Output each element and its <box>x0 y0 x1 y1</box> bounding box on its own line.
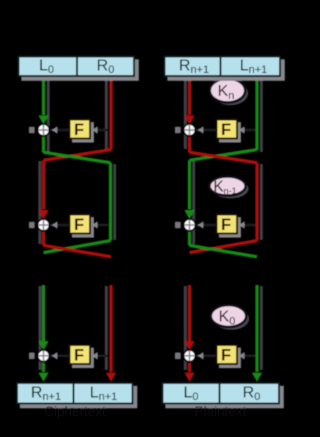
wire F E2 output to XOR E2 <box>50 224 69 227</box>
wire green below XOR3 <box>42 363 45 372</box>
function box F2 <box>72 217 94 238</box>
wire red swap diagonal round1 <box>44 150 112 161</box>
arrowhead red into XOR R3 <box>184 341 194 350</box>
arrowhead into XOR D1 from F D1 <box>198 126 204 134</box>
svg-text:Plaintext: Plaintext <box>195 404 247 419</box>
wire F E1 output to XOR E1 <box>50 129 69 132</box>
xor XOR R1 <box>183 123 197 137</box>
xor XOR R3 <box>183 349 197 363</box>
wire F D3 output to XOR D3 <box>196 354 216 357</box>
wire green L0 down to XOR1 <box>42 77 45 115</box>
xor XOR R2 <box>183 218 197 232</box>
arrowhead green into XOR R2 <box>184 210 194 219</box>
svg-text:F: F <box>74 216 84 234</box>
function box F1 <box>72 122 94 143</box>
key ellipse K0 <box>214 308 250 330</box>
arrowhead into F E1 <box>92 126 98 134</box>
wire red below XOR R3 <box>188 363 191 372</box>
svg-text:Ciphertext: Ciphertext <box>44 404 106 419</box>
shadow blob left of XOR E1 <box>29 127 35 134</box>
wire red left side round n right <box>188 285 191 346</box>
shadow blob left of XOR D1 <box>175 127 181 134</box>
wire red left side round2 <box>42 160 45 209</box>
arrowhead red into output box L0 cell <box>184 373 194 382</box>
arrowhead into F D2 <box>239 221 245 229</box>
ciphertext box Rn+1|Ln+1 (top right) <box>167 59 284 81</box>
wire red right side round2 right <box>255 163 258 241</box>
function box F R3 <box>219 348 241 369</box>
wire green Ln+1 down <box>255 77 258 150</box>
svg-text:F: F <box>221 216 231 234</box>
wire green left side round n <box>42 285 45 346</box>
key ellipse Kn-1 <box>212 179 248 198</box>
wire red swap diagonal round1 right <box>190 152 258 163</box>
arrowhead red into output box L cell <box>106 373 116 382</box>
wire shadow grays right column <box>184 78 187 149</box>
xor XOR2 <box>37 218 51 232</box>
wire shadow grays left column <box>47 78 50 152</box>
arrowhead green into XOR3 <box>38 341 48 350</box>
wire feed into F E1 <box>91 129 108 132</box>
svg-text:F: F <box>221 347 231 365</box>
wire green right side round n right <box>255 285 258 372</box>
wire F D2 output to XOR D2 <box>196 224 216 227</box>
arrowhead into XOR D2 from F D2 <box>198 221 204 229</box>
wire red R0 down <box>109 77 112 150</box>
shadow blob left of XOR D3 <box>175 353 181 360</box>
svg-text:F: F <box>74 347 84 365</box>
svg-text:F: F <box>221 121 231 139</box>
wire red below XOR R1 <box>188 137 191 153</box>
wire F E3 output to XOR E3 <box>50 354 69 357</box>
arrowhead into F D3 <box>239 352 245 360</box>
xor XOR1 <box>37 123 51 137</box>
arrowhead into XOR E1 from F E1 <box>52 126 58 134</box>
arrowhead into F E3 <box>92 352 98 360</box>
wire green swap diagonal round2 <box>44 241 111 253</box>
wire red swap diagonal round2 right <box>190 241 258 253</box>
wire red below XOR2 <box>42 232 45 246</box>
wire green swap diagonal round1 right <box>190 150 258 161</box>
wire feed into F D1 <box>238 129 255 132</box>
wire red right side round n <box>109 285 112 372</box>
arrowhead green into output box R cell <box>38 373 48 382</box>
arrowhead red into XOR R1 <box>184 115 194 124</box>
wire green left side round2 right <box>188 160 191 209</box>
output box Rn+1|Ln+1 (bottom left) <box>20 386 138 409</box>
arrowhead into XOR E3 from F E3 <box>52 352 58 360</box>
plaintext box L0|R0 (bottom right) <box>165 386 283 409</box>
arrowhead into XOR D3 from F D3 <box>198 352 204 360</box>
wire feed into F D2 <box>238 224 255 227</box>
wire green below XOR R2 <box>188 232 191 246</box>
arrowhead into XOR E2 from F E2 <box>52 221 58 229</box>
wire green below XOR1 <box>42 137 45 153</box>
arrowhead green into XOR1 <box>38 115 48 124</box>
function box F3 <box>72 348 94 369</box>
arrowhead into F D1 <box>239 126 245 134</box>
wire green swap diagonal round2 right <box>190 245 258 256</box>
function box F R1 <box>219 122 241 143</box>
wire red swap diagonal round2 <box>44 245 112 256</box>
wire green right side round2 <box>109 163 112 241</box>
shadow blob left of XOR E3 <box>29 353 35 360</box>
wire green swap diagonal round1 <box>44 152 111 163</box>
shadow blob left of XOR D2 <box>175 222 181 229</box>
wire feed into F D3 <box>238 354 255 357</box>
input box L0|R0 (top left) <box>21 59 139 81</box>
arrowhead red into XOR2 <box>38 210 48 219</box>
key ellipse Kn <box>213 81 249 105</box>
xor XOR3 <box>37 349 51 363</box>
arrowhead into F E2 <box>92 221 98 229</box>
shadow blob left of XOR E2 <box>29 222 35 229</box>
function box F R2 <box>219 217 241 238</box>
wire feed into F E2 <box>91 224 108 227</box>
svg-text:F: F <box>74 121 84 139</box>
wire red Rn+1 down to XOR R1 <box>188 77 191 115</box>
arrowhead green into output box R0 cell <box>252 373 262 382</box>
wire feed into F E3 <box>91 354 108 357</box>
wire F D1 output to XOR D1 <box>196 129 216 132</box>
